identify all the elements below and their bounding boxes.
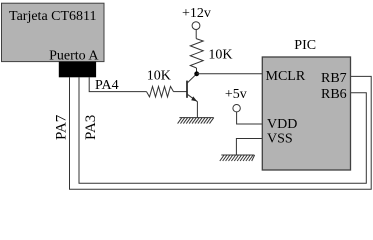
svg-text:RB7: RB7	[321, 71, 347, 86]
transistor Q1 collector	[187, 74, 197, 83]
connector Puerto A	[59, 62, 96, 78]
wire node to MCLR	[197, 73, 263, 75]
ground (transistor emitter)	[178, 118, 214, 124]
svg-text:MCLR: MCLR	[266, 69, 306, 84]
wire PA7	[70, 76, 372, 189]
svg-text:Tarjeta CT6811: Tarjeta CT6811	[9, 9, 97, 24]
svg-text:10K: 10K	[208, 47, 232, 62]
resistor R1 10K (base)	[147, 86, 174, 97]
svg-text:RB6: RB6	[321, 87, 347, 102]
wire 5v to VDD	[237, 112, 263, 124]
node junction dot	[194, 71, 199, 76]
svg-text:PA3: PA3	[83, 115, 99, 140]
transistor Q1 emitter arrow	[191, 96, 197, 101]
terminal +12v	[192, 22, 200, 30]
svg-text:+5v: +5v	[225, 87, 247, 102]
transistor Q1 base bar	[186, 81, 188, 98]
wire VSS to ground	[236, 139, 262, 156]
svg-text:PIC: PIC	[294, 38, 316, 53]
wire R1 to base	[174, 91, 188, 93]
svg-text:VDD: VDD	[267, 117, 297, 132]
wire R2 to node	[196, 68, 198, 74]
wire 12v to R2	[195, 30, 197, 39]
svg-text:PA4: PA4	[95, 78, 119, 93]
svg-text:+12v: +12v	[182, 6, 211, 21]
svg-text:Puerto A: Puerto A	[49, 49, 99, 64]
svg-text:PA7: PA7	[53, 114, 69, 140]
IC PIC box	[262, 57, 350, 170]
wire PA3	[79, 77, 366, 183]
box Tarjeta CT6811	[2, 3, 105, 61]
svg-text:10K: 10K	[147, 69, 171, 84]
wire PA4	[89, 77, 146, 91]
transistor Q1 emitter	[187, 94, 197, 102]
svg-text:VSS: VSS	[267, 132, 293, 147]
terminal +5v	[233, 105, 240, 112]
resistor R2 10K (pull-up, vertical)	[190, 39, 203, 68]
ground (VSS)	[220, 155, 255, 161]
wire emitter down	[196, 102, 198, 118]
